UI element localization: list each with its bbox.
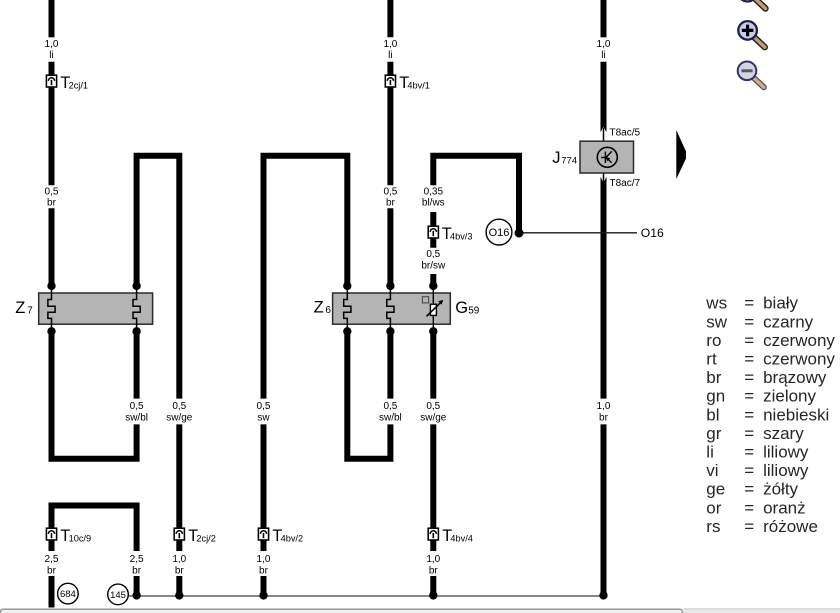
svg-text:1,0: 1,0 xyxy=(383,39,397,50)
svg-text:O16: O16 xyxy=(489,227,510,239)
svg-text:liliowy: liliowy xyxy=(763,461,809,480)
svg-text:59: 59 xyxy=(468,306,480,317)
svg-text:br: br xyxy=(132,566,142,577)
svg-text:J: J xyxy=(552,149,560,167)
svg-text:T8ac/7: T8ac/7 xyxy=(610,178,641,189)
svg-text:1,0: 1,0 xyxy=(597,401,611,412)
svg-text:=: = xyxy=(744,405,754,424)
svg-text:4bv/3: 4bv/3 xyxy=(450,231,472,241)
svg-text:or: or xyxy=(706,498,721,517)
svg-text:1,0: 1,0 xyxy=(45,39,59,50)
svg-text:=: = xyxy=(744,443,754,462)
svg-text:bl/ws: bl/ws xyxy=(422,198,445,209)
svg-text:0,5: 0,5 xyxy=(172,401,186,412)
svg-text:10c/9: 10c/9 xyxy=(69,533,91,543)
svg-text:145: 145 xyxy=(110,590,126,601)
svg-text:1,0: 1,0 xyxy=(257,554,271,565)
svg-text:sw/ge: sw/ge xyxy=(166,413,193,424)
svg-text:sw: sw xyxy=(706,312,728,331)
svg-text:0,5: 0,5 xyxy=(45,187,59,198)
svg-text:sw: sw xyxy=(257,413,270,424)
svg-text:vi: vi xyxy=(706,461,718,480)
svg-text:4bv/1: 4bv/1 xyxy=(407,80,429,90)
svg-text:biały: biały xyxy=(763,294,798,313)
svg-text:br: br xyxy=(259,566,269,577)
svg-text:=: = xyxy=(744,498,754,517)
svg-text:G: G xyxy=(455,299,468,317)
svg-text:br: br xyxy=(175,566,185,577)
svg-text:1,0: 1,0 xyxy=(172,554,186,565)
svg-text:br: br xyxy=(429,566,439,577)
svg-text:ge: ge xyxy=(706,480,725,499)
svg-text:niebieski: niebieski xyxy=(763,405,829,424)
svg-text:0,5: 0,5 xyxy=(426,249,440,260)
svg-text:sw/bl: sw/bl xyxy=(379,413,402,424)
svg-text:Z: Z xyxy=(314,299,324,317)
svg-text:Z: Z xyxy=(15,299,25,317)
svg-text:liliowy: liliowy xyxy=(763,443,809,462)
svg-text:szary: szary xyxy=(763,424,804,443)
svg-text:ro: ro xyxy=(706,331,721,350)
svg-text:czarny: czarny xyxy=(763,312,814,331)
svg-text:1,0: 1,0 xyxy=(597,39,611,50)
svg-text:br: br xyxy=(706,368,721,387)
svg-text:2,5: 2,5 xyxy=(45,554,59,565)
svg-text:brązowy: brązowy xyxy=(763,368,827,387)
svg-text:=: = xyxy=(744,350,754,369)
svg-text:T8ac/5: T8ac/5 xyxy=(610,128,641,139)
svg-text:=: = xyxy=(744,517,754,536)
svg-text:=: = xyxy=(744,387,754,406)
svg-text:684: 684 xyxy=(60,589,76,600)
svg-text:0,5: 0,5 xyxy=(383,187,397,198)
svg-text:br: br xyxy=(599,413,609,424)
svg-text:=: = xyxy=(744,331,754,350)
svg-text:2cj/2: 2cj/2 xyxy=(196,533,215,543)
svg-text:li: li xyxy=(706,443,714,462)
svg-text:774: 774 xyxy=(561,155,577,166)
svg-text:=: = xyxy=(744,424,754,443)
svg-text:sw/bl: sw/bl xyxy=(125,413,148,424)
svg-text:O16: O16 xyxy=(641,226,664,240)
svg-text:sw/ge: sw/ge xyxy=(420,413,447,424)
svg-text:4bv/4: 4bv/4 xyxy=(450,533,472,543)
svg-text:czerwony: czerwony xyxy=(763,331,835,350)
svg-text:zielony: zielony xyxy=(763,387,816,406)
svg-text:7: 7 xyxy=(27,305,33,316)
svg-text:br: br xyxy=(47,198,57,209)
svg-text:rs: rs xyxy=(706,517,720,536)
svg-text:oranż: oranż xyxy=(763,498,806,517)
svg-text:li: li xyxy=(601,50,605,61)
svg-text:0,5: 0,5 xyxy=(426,401,440,412)
svg-text:gr: gr xyxy=(706,424,721,443)
svg-text:różowe: różowe xyxy=(763,517,818,536)
svg-text:1,0: 1,0 xyxy=(426,554,440,565)
svg-text:żółty: żółty xyxy=(763,480,798,499)
svg-text:li: li xyxy=(49,50,53,61)
svg-text:0,35: 0,35 xyxy=(424,187,444,198)
svg-text:gn: gn xyxy=(706,387,725,406)
svg-text:li: li xyxy=(388,50,392,61)
svg-text:2,5: 2,5 xyxy=(130,554,144,565)
svg-text:2cj/1: 2cj/1 xyxy=(69,80,88,90)
svg-text:bl: bl xyxy=(706,405,719,424)
svg-text:=: = xyxy=(744,294,754,313)
svg-text:=: = xyxy=(744,312,754,331)
svg-text:br/sw: br/sw xyxy=(421,260,446,271)
svg-text:rt: rt xyxy=(706,350,717,369)
svg-text:0,5: 0,5 xyxy=(257,401,271,412)
svg-text:4bv/2: 4bv/2 xyxy=(281,533,303,543)
svg-text:czerwony: czerwony xyxy=(763,350,835,369)
svg-text:br: br xyxy=(386,198,396,209)
svg-text:0,5: 0,5 xyxy=(383,401,397,412)
svg-text:=: = xyxy=(744,480,754,499)
svg-text:=: = xyxy=(744,461,754,480)
svg-text:0,5: 0,5 xyxy=(130,401,144,412)
svg-text:=: = xyxy=(744,368,754,387)
svg-text:ws: ws xyxy=(705,294,727,313)
svg-text:6: 6 xyxy=(325,305,331,316)
svg-text:br: br xyxy=(47,566,57,577)
